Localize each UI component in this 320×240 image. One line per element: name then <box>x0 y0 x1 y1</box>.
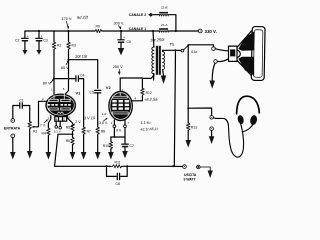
wire: main B+ bus y=31 <box>25 30 95 32</box>
node: T1 primary top junction <box>152 30 154 32</box>
resistor R4 (V1a cathode) <box>42 128 51 152</box>
node: V1b plate 60V junction <box>67 59 69 61</box>
svg-text:10t 15t: 10t 15t <box>75 54 88 59</box>
svg-text:2: 2 <box>111 121 113 125</box>
speaker <box>229 26 266 80</box>
svg-text:C1: C1 <box>19 99 24 103</box>
V2 bottom pin 9 <box>124 120 130 137</box>
resistor R10 (V2 cathode) <box>103 137 113 152</box>
svg-text:7: 7 <box>127 121 129 125</box>
capacitor C3 <box>36 31 48 50</box>
svg-text:Z1-A: Z1-A <box>161 23 168 27</box>
wire: V2 cathode bus <box>111 136 125 138</box>
svg-text:R4: R4 <box>42 132 46 136</box>
wire: rail to output terminal <box>127 165 173 167</box>
svg-text:R13: R13 <box>191 125 197 129</box>
resistor R13 (headphone shunt) <box>186 108 197 140</box>
svg-text:T1: T1 <box>170 43 174 47</box>
svg-text:R11: R11 <box>115 160 121 164</box>
ground C7 <box>122 151 128 158</box>
capacitor C7 <box>122 137 134 151</box>
svg-text:R10: R10 <box>103 144 109 148</box>
transformer T1 core <box>156 46 161 75</box>
svg-text:+8 2,5a: +8 2,5a <box>144 97 158 102</box>
handwritten pencil annotations <box>75 14 197 131</box>
svg-text:9d 22t: 9d 22t <box>77 14 89 20</box>
input terminal ENTRATA <box>4 119 21 138</box>
wire: C1 to R1 <box>22 106 29 122</box>
wire: V1a plate down to pin 1 <box>53 79 55 96</box>
svg-text:8: 8 <box>68 116 70 120</box>
node: secondary-USCITA junction <box>175 49 177 51</box>
svg-text:+: + <box>27 34 29 38</box>
wire: R11 to junction <box>122 165 128 167</box>
resistor R8 (grid leak V2) <box>96 127 105 152</box>
wire: V1b plate down to pin 6 <box>65 60 69 95</box>
node: C3 junction <box>38 30 40 32</box>
ground T1 secondary <box>161 76 167 85</box>
svg-text:9 WATT: 9 WATT <box>184 177 197 181</box>
svg-text:R2: R2 <box>57 44 61 48</box>
output terminal USCITA 1 <box>183 165 187 169</box>
wire: V2 plate to riser <box>131 95 142 101</box>
node: screen/plate supply junction <box>141 77 143 79</box>
wire: C4 to grid-leak column <box>78 79 83 127</box>
wire: headphone rail down <box>187 45 189 108</box>
node: feedback tap junction <box>72 133 74 135</box>
svg-text:170 V.: 170 V. <box>62 17 73 21</box>
capacitor C2 <box>15 31 29 50</box>
svg-text:10t 250t: 10t 250t <box>150 37 166 43</box>
node: switch-headphone junction <box>187 44 189 46</box>
svg-text:3: 3 <box>48 116 50 120</box>
capacitor C6 <box>118 31 131 48</box>
potentiometer R1 <box>28 101 47 151</box>
wire: jack terminal 2 to ground <box>211 131 213 137</box>
ground USCITA <box>208 171 213 179</box>
label 170 V. <box>62 17 73 29</box>
svg-text:13,6 V.: 13,6 V. <box>97 121 108 125</box>
svg-text:250 V.: 250 V. <box>113 65 124 69</box>
svg-text:ENTRATA: ENTRATA <box>4 127 21 131</box>
svg-text:R7: R7 <box>87 129 91 133</box>
svg-text:R5: R5 <box>66 126 70 130</box>
svg-text:R9: R9 <box>96 25 100 29</box>
wire: rail end to USCITA <box>173 165 182 167</box>
wire: C5 down to R8 <box>97 93 99 127</box>
tube V2 <box>109 91 133 120</box>
svg-text:6,3 V.: 6,3 V. <box>54 130 62 134</box>
pin 3 wire <box>48 116 50 128</box>
svg-text:6: 6 <box>63 87 65 91</box>
svg-text:CANALE 1: CANALE 1 <box>129 27 147 31</box>
choke Z1-B <box>129 6 169 18</box>
svg-text:CANALE 2: CANALE 2 <box>129 13 147 17</box>
ground R10 <box>108 152 114 160</box>
wire: terminal2 to ground <box>212 63 215 80</box>
svg-text:R6: R6 <box>66 139 70 143</box>
node: V1a plate 80V junction <box>53 78 55 80</box>
ground R7 <box>81 152 87 160</box>
node: 300V junction <box>120 30 122 32</box>
svg-text:C8: C8 <box>116 182 121 186</box>
svg-text:C2: C2 <box>15 38 20 42</box>
tube V1 <box>46 94 76 116</box>
V2 bottom pin 2 <box>111 120 116 137</box>
svg-text:9 V.: 9 V. <box>116 129 122 133</box>
ground R13 <box>185 140 191 148</box>
choke Z1-A <box>129 23 169 32</box>
wire: terminal2 to voice coil <box>217 59 228 62</box>
svg-text:300 V.: 300 V. <box>114 22 125 26</box>
wire: V1b plate feed to C5 <box>69 60 98 88</box>
resistor R7 (grid leak V1b) <box>82 127 91 152</box>
ground headphone jack <box>209 136 215 144</box>
svg-text:S1a: S1a <box>191 50 197 54</box>
svg-text:C5: C5 <box>90 90 95 94</box>
capacitor C1 <box>19 99 24 109</box>
switch S1 contact <box>177 45 189 52</box>
ground R6 <box>70 152 76 160</box>
wire: secondary to rail drop <box>174 50 175 166</box>
label 80 V. <box>43 79 54 85</box>
wire: feedback from R5/R6 junction <box>55 134 73 166</box>
label 13,6 V. with arrow <box>97 118 108 125</box>
node: cathode junction <box>113 136 115 138</box>
wire: USCITA2 to ground <box>200 167 210 171</box>
label 300 V. <box>114 22 125 30</box>
ground C6 <box>118 48 124 55</box>
label 7 V. (V1a cathode) <box>40 119 48 127</box>
wire: terminal1 to voice coil <box>215 49 228 51</box>
svg-text:C6: C6 <box>127 40 132 44</box>
resistor R5 (V1b cathode upper) <box>66 124 75 134</box>
pin 8 wire to R5 <box>67 116 72 124</box>
wire: feedback rail <box>56 165 110 167</box>
ground C2 <box>22 50 27 55</box>
heater pin box V1 <box>55 117 67 122</box>
svg-text:3 V 10: 3 V 10 <box>84 116 96 120</box>
svg-text:C4: C4 <box>80 74 85 78</box>
output terminal USCITA 2 <box>197 165 201 169</box>
ground R1 <box>27 151 33 159</box>
svg-text:2: 2 <box>42 97 44 101</box>
wire: input to C1 <box>13 106 19 119</box>
headphone cord right branch <box>244 125 253 132</box>
svg-text:R3: R3 <box>72 44 76 48</box>
transformer T1 primary <box>152 31 154 80</box>
wire: riser to T1 primary bottom <box>142 74 153 89</box>
svg-text:2 V.: 2 V. <box>75 120 81 124</box>
wire: V1a plate to C4 <box>54 78 75 80</box>
ground R4 <box>46 152 52 160</box>
wire: bus Z1A to terminal <box>168 30 199 32</box>
node: R11 left junction <box>106 165 108 167</box>
headphone cord <box>213 118 243 158</box>
svg-text:R12: R12 <box>146 91 152 95</box>
ground speaker <box>209 81 215 89</box>
heater terminal circles <box>54 121 62 133</box>
label 250 V. with arrow <box>113 65 124 75</box>
node: headphone tap junction <box>187 107 189 109</box>
svg-text:1-6: 1-6 <box>102 112 107 116</box>
svg-text:1,1 4u: 1,1 4u <box>140 121 150 125</box>
svg-text:80 V.: 80 V. <box>43 81 52 85</box>
wire: V2 screen pin 7 to B+ node <box>120 78 142 92</box>
svg-text:4: 4 <box>135 97 137 101</box>
svg-text:1: 1 <box>51 88 53 92</box>
resistor R9 (series on bus) <box>95 25 102 33</box>
svg-text:Z1-B: Z1-B <box>161 6 168 10</box>
svg-text:V2: V2 <box>106 85 112 90</box>
wire: headphone jack feed <box>188 108 211 115</box>
svg-text:330 V.: 330 V. <box>205 29 217 34</box>
svg-text:+: + <box>41 34 43 38</box>
capacitor C4 <box>76 74 85 82</box>
svg-text:C7: C7 <box>130 144 135 148</box>
resistor R2 (bus to V1 plate a) <box>52 31 61 79</box>
headphone jack terminal 2 <box>210 127 214 131</box>
svg-text:42,1t A5,1t: 42,1t A5,1t <box>140 127 158 132</box>
resistor R6 (V1b cathode lower) <box>66 134 75 152</box>
resistor R11 (feedback) <box>107 160 122 168</box>
svg-text:7 V.: 7 V. <box>40 123 46 127</box>
headphones <box>237 96 260 125</box>
wire: bus after R9 to 330V terminal <box>102 30 160 32</box>
speaker terminal 1 <box>212 47 216 51</box>
speaker terminal 2 <box>214 60 218 64</box>
node: R11 right junction <box>126 165 128 167</box>
svg-text:+: + <box>123 36 125 40</box>
label 60 V. <box>61 60 70 70</box>
svg-text:R8: R8 <box>101 129 105 133</box>
resistor R12 (plate stopper) <box>141 88 152 95</box>
capacitor C8 parallel loop <box>107 166 128 186</box>
label USCITA 9 WATT <box>184 173 197 181</box>
wire: speaker feed <box>188 45 213 47</box>
label 2 V. (V1b cathode) <box>71 120 82 127</box>
svg-text:V1: V1 <box>76 90 82 95</box>
ground C3 <box>37 50 42 55</box>
ground R8 <box>95 152 101 160</box>
resistor R3 (bus to V1 plate b) <box>67 31 76 60</box>
headphone jack terminal 1 <box>210 116 214 120</box>
node: Z1-B join junction <box>175 30 177 32</box>
capacitor C5 <box>90 90 101 94</box>
wire: Z1-B to bus <box>168 15 176 31</box>
svg-text:C3: C3 <box>43 38 48 42</box>
ground ENTRATA <box>10 138 16 160</box>
terminal 330V <box>198 29 216 34</box>
node: 170V junction <box>67 30 69 32</box>
transformer T1 secondary <box>163 50 176 75</box>
svg-text:R1: R1 <box>33 130 37 134</box>
node: secondary drop junction <box>172 165 174 167</box>
